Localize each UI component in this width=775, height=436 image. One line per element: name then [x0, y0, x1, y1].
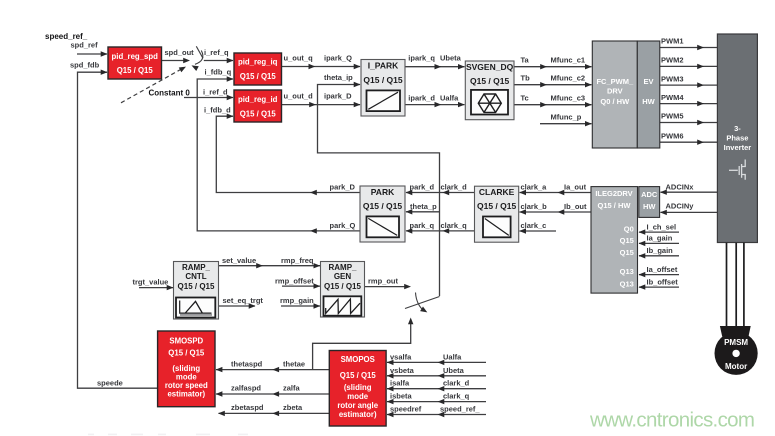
svg-text:trgt_value: trgt_value — [133, 277, 169, 286]
wire PWM4 — [660, 93, 717, 107]
block SVGEN_DQ — [465, 61, 514, 120]
svg-text:Motor: Motor — [725, 362, 747, 371]
svg-text:zalfaspd: zalfaspd — [231, 384, 261, 393]
block EV HW — [637, 41, 660, 148]
wire Ualfa / vsalfa — [387, 352, 486, 365]
wire clark_d / park_d — [406, 183, 475, 196]
svg-text:Phase: Phase — [726, 133, 748, 142]
svg-text:i_fdb_q: i_fdb_q — [205, 68, 232, 77]
svg-text:Ubeta: Ubeta — [440, 54, 462, 63]
svg-text:Q15 / Q15: Q15 / Q15 — [340, 371, 377, 380]
svg-text:Q15 / HW: Q15 / HW — [598, 201, 632, 210]
wire thetae branch to switch — [313, 318, 414, 370]
svg-text:CLARKE: CLARKE — [479, 187, 515, 197]
svg-text:zbetaspd: zbetaspd — [231, 403, 264, 412]
wire motor lead a — [726, 243, 728, 327]
svg-text:Q15 / Q15: Q15 / Q15 — [168, 348, 205, 357]
wire Tc / Mfunc_c3 — [514, 93, 592, 107]
svg-text:pid_reg_iq: pid_reg_iq — [238, 58, 278, 67]
wire ipark_q / Ubeta — [405, 54, 465, 70]
block RAMP_CNTL — [174, 262, 219, 320]
svg-text:Ia_offset: Ia_offset — [647, 265, 678, 274]
wire thetae / thetaspd — [216, 359, 329, 372]
svg-text:spd_fdb: spd_fdb — [70, 61, 100, 70]
wire ipark_d / Ualfa — [405, 93, 465, 107]
svg-text:park_q: park_q — [410, 221, 435, 230]
svg-text:Ualfa: Ualfa — [443, 352, 462, 361]
block RAMP_GEN — [321, 262, 365, 318]
wire speed_ref_ / speedref — [387, 405, 486, 418]
svg-text:Tc: Tc — [521, 93, 529, 102]
svg-text:Q15 / Q15: Q15 / Q15 — [240, 109, 277, 118]
svg-text:rmp_freq: rmp_freq — [281, 256, 314, 265]
svg-text:clark_d: clark_d — [441, 183, 468, 192]
svg-text:Ubeta: Ubeta — [443, 366, 465, 375]
dashed mode-select line — [121, 64, 187, 103]
svg-text:i_ref_d: i_ref_d — [203, 87, 228, 96]
svg-text:Mfunc_c1: Mfunc_c1 — [551, 55, 586, 64]
wire motor lead b — [735, 243, 737, 327]
svg-text:HW: HW — [643, 202, 656, 211]
svg-text:rotor angle: rotor angle — [337, 401, 378, 410]
svg-text:u_out_q: u_out_q — [284, 54, 314, 63]
svg-text:speedref: speedref — [390, 405, 422, 414]
wire Ib_gain — [639, 246, 680, 259]
svg-text:clark_q: clark_q — [443, 392, 470, 401]
block CLARKE — [475, 186, 519, 242]
svg-text:ADC: ADC — [641, 190, 658, 199]
svg-text:Q15 / Q15: Q15 / Q15 — [324, 282, 361, 291]
svg-text:ipark_q: ipark_q — [408, 54, 435, 63]
svg-text:clark_a: clark_a — [521, 183, 548, 192]
block PARK — [360, 186, 405, 242]
svg-text:I_ch_sel: I_ch_sel — [647, 222, 677, 231]
svg-text:i_fdb_d: i_fdb_d — [204, 106, 231, 115]
svg-text:HW: HW — [642, 97, 655, 106]
wire Ta / Mfunc_c1 — [514, 55, 592, 69]
block ADC HW — [639, 187, 660, 218]
svg-text:ADCINy: ADCINy — [666, 202, 695, 211]
wire Ia_gain — [639, 234, 680, 246]
svg-text:speed_ref_: speed_ref_ — [440, 405, 480, 414]
svg-text:ipark_Q: ipark_Q — [324, 54, 352, 63]
svg-text:isbeta: isbeta — [390, 392, 413, 401]
block I_PARK — [361, 60, 405, 117]
svg-text:park_Q: park_Q — [330, 221, 356, 230]
svg-text:speede: speede — [97, 379, 123, 388]
wire I_ch_sel — [639, 222, 680, 235]
svg-text:SMOSPD: SMOSPD — [169, 336, 203, 345]
svg-text:Q0 / HW: Q0 / HW — [600, 97, 630, 106]
wire park_Q / i_fdb_q — [197, 68, 360, 234]
wire park_D / i_fdb_d — [204, 106, 360, 196]
svg-text:PWM4: PWM4 — [661, 93, 684, 102]
wire theta from switch to theta_ip — [318, 73, 440, 296]
svg-text:zbeta: zbeta — [283, 403, 303, 412]
svg-text:rmp_offset: rmp_offset — [275, 276, 314, 285]
wire PWM6 — [660, 131, 717, 145]
svg-text:park_D: park_D — [330, 183, 356, 192]
wire rmp_gain — [280, 296, 320, 309]
wire spd_out — [162, 48, 195, 63]
svg-text:Q15 / Q15: Q15 / Q15 — [477, 201, 516, 211]
wire speede / spd_fdb feedback — [70, 61, 158, 389]
svg-text:CNTL: CNTL — [185, 272, 206, 281]
svg-text:Mfunc_c3: Mfunc_c3 — [551, 93, 586, 102]
wire set_eq_trgt — [218, 296, 263, 309]
svg-text:set_eq_trgt: set_eq_trgt — [223, 296, 264, 305]
svg-text:EV: EV — [643, 77, 653, 86]
wire u_out_d / ipark_D — [282, 91, 361, 107]
wire Ia_offset — [639, 265, 680, 278]
wire clark_d / isalfa — [387, 379, 486, 392]
wire theta_p branch — [406, 202, 440, 215]
svg-text:DRV: DRV — [607, 86, 623, 95]
wire ADCINx — [660, 182, 718, 195]
wire Ubeta / vsbeta — [387, 366, 486, 379]
transistor icon inside inverter — [729, 160, 745, 180]
svg-text:PARK: PARK — [371, 187, 395, 197]
svg-text:vsalfa: vsalfa — [390, 352, 412, 361]
block ILEG2DRV — [591, 187, 638, 294]
svg-text:Constant 0: Constant 0 — [149, 88, 191, 97]
wire clark_q / park_q — [406, 221, 475, 234]
svg-text:RAMP_: RAMP_ — [182, 263, 211, 272]
wire zalfa / zalfaspd — [216, 384, 329, 397]
svg-text:www.cntronics.com: www.cntronics.com — [589, 409, 755, 432]
svg-text:Tb: Tb — [521, 73, 531, 82]
wire rmp_out — [365, 276, 412, 289]
svg-text:Ib_offset: Ib_offset — [647, 277, 679, 286]
switch 2 curved arrow — [416, 293, 429, 315]
switch 1 curved arrow — [190, 51, 203, 71]
svg-text:PWM5: PWM5 — [661, 112, 684, 121]
wire Ia_out / clark_a — [519, 183, 591, 196]
wire Tb / Mfunc_c2 — [514, 73, 592, 87]
svg-text:Mfunc_c2: Mfunc_c2 — [551, 73, 586, 82]
svg-text:rmp_out: rmp_out — [368, 276, 399, 285]
block 3-Phase Inverter — [717, 34, 757, 243]
svg-text:clark_b: clark_b — [521, 202, 548, 211]
wire PWM3 — [660, 74, 717, 88]
svg-text:ILEG2DRV: ILEG2DRV — [595, 189, 632, 198]
svg-text:i_ref_q: i_ref_q — [204, 48, 229, 57]
svg-text:Mfunc_p: Mfunc_p — [551, 112, 582, 121]
block SMOSPD — [158, 331, 215, 407]
svg-text:theta_p: theta_p — [410, 202, 437, 211]
svg-text:thetae: thetae — [283, 359, 305, 368]
svg-text:ipark_d: ipark_d — [408, 93, 435, 102]
wire Ib_offset — [639, 277, 680, 290]
wire PWM5 — [660, 112, 717, 126]
svg-text:set_value: set_value — [222, 256, 256, 265]
svg-text:3-: 3- — [734, 124, 741, 133]
svg-text:(sliding: (sliding — [344, 383, 372, 392]
faint cropped caption remnants — [88, 434, 248, 436]
svg-text:clark_c: clark_c — [521, 221, 547, 230]
wire spd_ref — [71, 41, 108, 57]
wire PWM1 — [660, 37, 717, 51]
svg-text:clark_d: clark_d — [443, 379, 470, 388]
svg-text:estimator): estimator) — [339, 410, 377, 419]
wire motor lead c — [743, 243, 745, 327]
svg-text:Q15 / Q15: Q15 / Q15 — [117, 66, 154, 75]
svg-text:PMSM: PMSM — [724, 338, 748, 347]
wire u_out_q / ipark_Q — [282, 54, 361, 70]
block FC_PWM_DRV — [592, 41, 637, 148]
svg-text:thetaspd: thetaspd — [231, 359, 263, 368]
svg-text:Q15 / Q15: Q15 / Q15 — [240, 72, 277, 81]
wire PWM2 — [660, 56, 717, 70]
svg-text:zalfa: zalfa — [283, 384, 301, 393]
svg-text:Inverter: Inverter — [724, 143, 752, 152]
svg-text:theta_ip: theta_ip — [324, 73, 353, 82]
svg-text:PWM6: PWM6 — [661, 131, 684, 140]
svg-text:Ib_gain: Ib_gain — [647, 246, 674, 255]
svg-text:I_PARK: I_PARK — [368, 61, 399, 71]
switch 1 blade — [196, 46, 203, 58]
svg-text:Q15 / Q15: Q15 / Q15 — [470, 76, 509, 86]
block pid_reg_iq — [234, 53, 282, 85]
svg-text:pid_reg_id: pid_reg_id — [238, 95, 278, 104]
svg-text:ADCINx: ADCINx — [666, 182, 695, 191]
switch 2 blade — [405, 297, 440, 309]
wire clark_q / isbeta — [387, 392, 486, 405]
svg-text:PWM3: PWM3 — [661, 74, 684, 83]
svg-text:PWM2: PWM2 — [661, 56, 684, 65]
svg-text:spd_out: spd_out — [165, 48, 195, 57]
svg-text:SVGEN_DQ: SVGEN_DQ — [466, 62, 514, 72]
block SMOPOS — [329, 351, 386, 427]
svg-text:ipark_D: ipark_D — [324, 91, 352, 100]
wire Constant 0 / i_ref_d — [149, 87, 234, 100]
block pid_reg_spd — [108, 47, 162, 79]
svg-text:RAMP_: RAMP_ — [328, 263, 357, 272]
svg-text:Ib_out: Ib_out — [564, 202, 587, 211]
svg-text:Q15 / Q15: Q15 / Q15 — [178, 282, 215, 291]
wire set_value / rmp_freq — [218, 256, 320, 268]
wire rmp_offset — [275, 276, 320, 289]
svg-text:PWM1: PWM1 — [661, 37, 684, 46]
svg-text:Q15 / Q15: Q15 / Q15 — [363, 201, 402, 211]
svg-text:vsbeta: vsbeta — [390, 366, 415, 375]
svg-text:SMOPOS: SMOPOS — [341, 355, 375, 364]
wire Ib_out / clark_b — [519, 202, 591, 215]
svg-text:Ia_out: Ia_out — [564, 183, 587, 192]
svg-text:estimator): estimator) — [167, 390, 205, 399]
svg-text:Ualfa: Ualfa — [440, 93, 459, 102]
motor PMSM — [715, 326, 758, 375]
svg-text:Q15: Q15 — [620, 236, 634, 245]
wire ADCINy — [660, 202, 718, 215]
svg-text:mode: mode — [347, 392, 368, 401]
svg-text:spd_ref: spd_ref — [71, 41, 99, 50]
block pid_reg_id — [234, 90, 282, 122]
svg-text:park_d: park_d — [410, 183, 435, 192]
svg-text:Q15: Q15 — [620, 248, 634, 257]
wire Mfunc_p — [540, 112, 592, 126]
svg-text:FC_PWM_: FC_PWM_ — [596, 77, 633, 86]
svg-text:Q0: Q0 — [624, 225, 634, 234]
svg-text:Q15 / Q15: Q15 / Q15 — [363, 75, 402, 85]
wire zbeta / zbetaspd — [218, 403, 329, 416]
svg-text:u_out_d: u_out_d — [284, 91, 314, 100]
svg-text:GEN: GEN — [334, 272, 352, 281]
svg-text:rmp_gain: rmp_gain — [280, 296, 314, 305]
wire clark_c — [519, 221, 556, 234]
wire trgt_value — [133, 277, 174, 290]
svg-text:pid_reg_spd: pid_reg_spd — [112, 52, 159, 61]
svg-text:isalfa: isalfa — [390, 379, 410, 388]
svg-text:Q13: Q13 — [620, 267, 634, 276]
svg-text:Q13: Q13 — [620, 280, 634, 289]
svg-text:Ta: Ta — [521, 55, 530, 64]
svg-text:Ia_gain: Ia_gain — [647, 234, 673, 243]
svg-text:clark_q: clark_q — [441, 221, 468, 230]
wire i_ref_q — [204, 48, 234, 63]
